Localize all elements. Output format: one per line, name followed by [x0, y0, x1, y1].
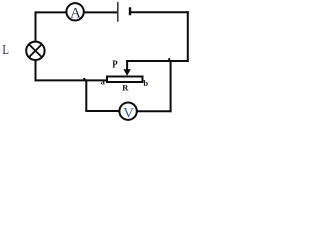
wire voltmeter right horizontal [137, 110, 171, 112]
svg-text:b: b [143, 78, 148, 88]
lamp L circle [26, 42, 44, 60]
voltmeter V1 circle [119, 103, 136, 120]
lamp X cross [29, 44, 42, 57]
wiper arrow shaft P [126, 60, 128, 71]
svg-text:A: A [70, 6, 81, 22]
wire left vertical (corner down to lamp top) [35, 11, 37, 40]
wire top-left horizontal (corner to ammeter) [36, 11, 66, 13]
wire voltmeter left horizontal [85, 110, 119, 112]
svg-text:L: L [2, 43, 9, 58]
wire voltmeter right vertical (up to P-wire) [170, 60, 172, 112]
resistor R body [107, 77, 143, 83]
junction nub left (voltmeter tap on a-wire) [83, 78, 85, 80]
wire battery to top-right corner [131, 11, 189, 13]
ammeter A1 circle [66, 3, 83, 20]
wire ammeter to battery [84, 11, 117, 13]
wire right vertical (battery down to P-wire) [187, 11, 189, 62]
svg-text:R: R [122, 83, 129, 93]
battery short plate (negative) [129, 7, 131, 15]
wiper arrowhead [123, 69, 130, 76]
wire a-side horizontal (lamp to resistor a) [35, 79, 107, 81]
battery long plate (positive) [117, 2, 119, 22]
svg-text:P: P [112, 58, 118, 70]
wire lamp bottom vertical [35, 60, 37, 80]
junction nub right (voltmeter tap on P-wire) [168, 58, 170, 60]
wire voltmeter left vertical [85, 79, 87, 111]
wire P horizontal (wiper feed) [126, 60, 188, 62]
svg-text:V: V [123, 106, 134, 122]
